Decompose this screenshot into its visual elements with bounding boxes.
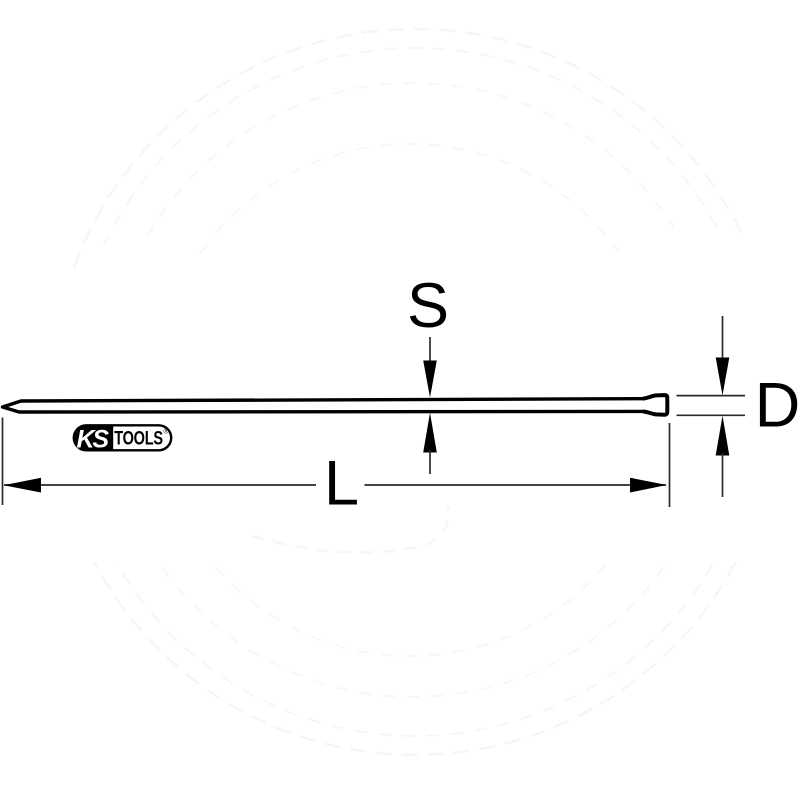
watermark second ring top arc: [103, 48, 719, 247]
svg-text:D: D: [755, 370, 800, 440]
dimension D upper arrowhead: [716, 358, 730, 396]
dimension S lower arrowhead: [423, 413, 437, 453]
svg-text:S: S: [407, 271, 449, 341]
dimension L right extension line: [669, 423, 671, 507]
pry bar body outline: [3, 395, 668, 415]
pry bar chisel head heavier outline: [643, 395, 667, 415]
dimension D top extension line: [677, 395, 746, 397]
dimension D lower arrow line: [722, 453, 724, 497]
dimension D lower arrowhead: [716, 416, 730, 456]
watermark third ring top arc: [147, 83, 673, 237]
dimension L line right segment: [365, 484, 667, 486]
dimension S upper arrow line: [429, 337, 431, 363]
svg-text:L: L: [324, 448, 359, 518]
dimension D upper arrow line: [722, 316, 724, 360]
watermark outer ring bottom arc: [95, 562, 736, 755]
watermark second ring bottom arc: [117, 564, 713, 736]
watermark inner hook: [252, 506, 448, 552]
watermark outer ring top arc: [74, 29, 744, 268]
dimension D bottom extension line: [677, 414, 746, 416]
watermark inner ring top arc: [200, 144, 619, 253]
dimension L line left segment: [4, 484, 316, 486]
watermark inner ring bottom arc: [214, 565, 606, 656]
svg-text:TOOLS: TOOLS: [114, 426, 163, 449]
dimension L right arrowhead: [630, 478, 667, 493]
dimension L left arrowhead: [4, 478, 42, 493]
watermark third ring bottom arc: [162, 566, 665, 697]
svg-text:®: ®: [164, 428, 170, 436]
dimension S upper arrowhead: [423, 361, 437, 398]
svg-text:KS: KS: [77, 426, 110, 454]
KS Tools logo pill: [74, 425, 171, 453]
dimension S lower arrow line: [429, 450, 431, 474]
dimension L left extension line: [2, 418, 4, 506]
